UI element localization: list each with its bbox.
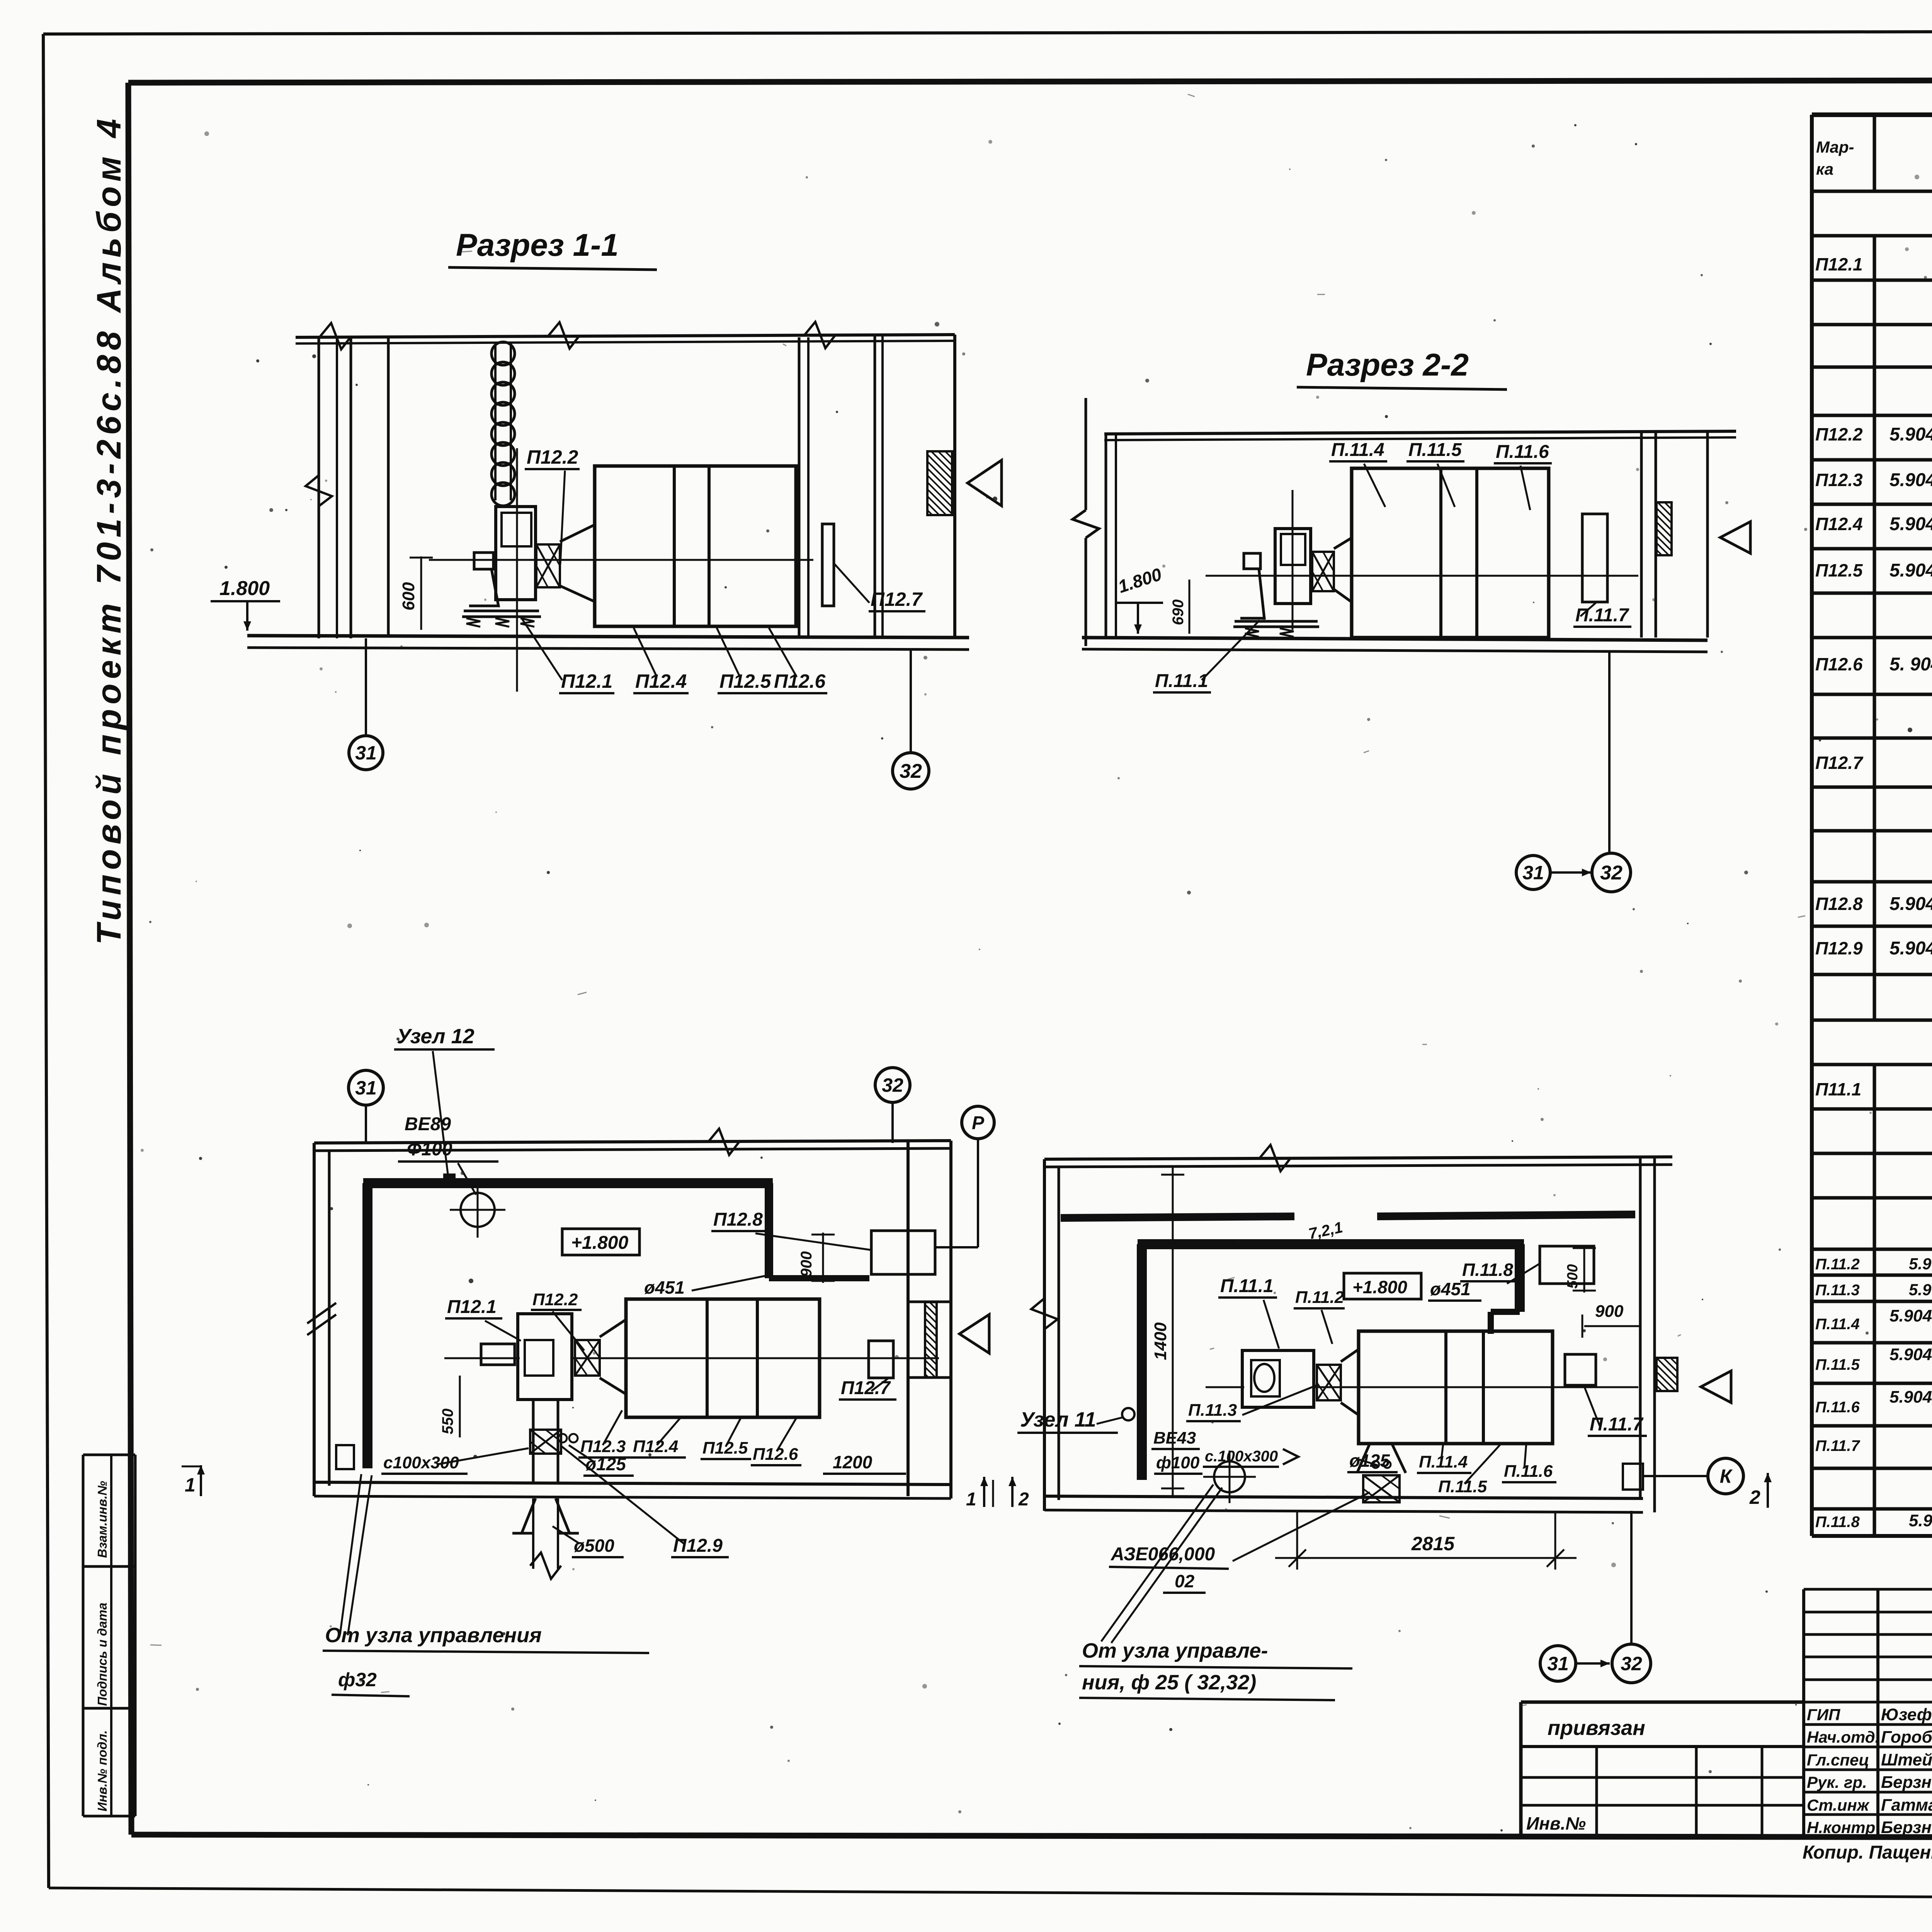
svg-text:5.904-12 в.1-15: 5.904-12 в.1-15 — [1889, 1345, 1932, 1364]
svg-text:31: 31 — [355, 742, 377, 764]
sec1-1 flexible duct with spiral — [492, 342, 515, 506]
plan12 valve П12.7 — [869, 1341, 893, 1378]
valve П11.7 — [1582, 514, 1607, 602]
label П12.1 — [445, 1297, 521, 1341]
svg-text:П12.1: П12.1 — [1815, 254, 1863, 274]
plan11 sections box — [1314, 1331, 1638, 1444]
svg-text:+1.800: +1.800 — [571, 1233, 628, 1253]
svg-text:5.904-12 в.1-15: 5.904-12 в.1-15 — [1889, 560, 1932, 581]
plan11 fan unit — [1206, 1350, 1314, 1407]
svg-text:690: 690 — [1170, 599, 1187, 625]
svg-text:ф32: ф32 — [338, 1669, 377, 1690]
label П12.9 — [561, 1446, 729, 1557]
section mark 1 left — [182, 1465, 205, 1496]
svg-text:5.904- 4: 5.904- 4 — [1889, 894, 1932, 914]
sec1-1 dim 600 — [399, 556, 433, 630]
svg-text:Н.контр: Н.контр — [1807, 1818, 1875, 1837]
svg-text:Узел 11: Узел 11 — [1020, 1408, 1096, 1431]
svg-text:П12.3: П12.3 — [580, 1437, 626, 1456]
svg-text:П12.6: П12.6 — [774, 670, 826, 692]
duct end flange — [336, 1445, 354, 1469]
svg-text:П11.1: П11.1 — [1815, 1079, 1861, 1099]
svg-text:Р: Р — [972, 1113, 985, 1133]
plan11 left wall — [1031, 1159, 1059, 1511]
svg-text:1400: 1400 — [1151, 1322, 1170, 1360]
flexible insert П11.2 — [1312, 552, 1334, 591]
svg-text:ø451: ø451 — [644, 1277, 685, 1298]
svg-text:П12.6: П12.6 — [1815, 654, 1863, 674]
svg-text:П12.9: П12.9 — [1815, 938, 1863, 958]
svg-text:П12.3: П12.3 — [1815, 470, 1863, 490]
svg-text:П.11.4: П.11.4 — [1419, 1452, 1468, 1471]
sections box П12.4 П12.5 П12.6 — [498, 466, 813, 626]
svg-text:Штейнберг: Штейнберг — [1881, 1750, 1932, 1769]
suction bell below fan — [1357, 1444, 1406, 1502]
svg-text:5.904-38: 5.904-38 — [1889, 424, 1932, 445]
privyazan table — [1521, 1702, 1804, 1835]
svg-text:ø125: ø125 — [1349, 1451, 1390, 1471]
section 2-2 title — [1297, 347, 1507, 389]
label d451 — [642, 1275, 769, 1299]
svg-text:П.11.1: П.11.1 — [1155, 671, 1208, 691]
svg-text:Узел 12: Узел 12 — [397, 1025, 474, 1048]
svg-text:П12.2: П12.2 — [1815, 424, 1863, 444]
svg-text:П12.4: П12.4 — [633, 1437, 678, 1456]
svg-text:П12.7: П12.7 — [871, 588, 923, 610]
label П12.7 — [839, 1378, 896, 1400]
fan unit П11.1 — [1233, 490, 1319, 637]
plan12 flow triangle — [959, 1315, 989, 1353]
svg-text:Нач.отд.: Нач.отд. — [1807, 1728, 1879, 1746]
plan11 bottom wall — [1044, 1496, 1643, 1512]
plan11 supply duct loop — [1138, 1244, 1524, 1480]
plan11 upper wall duct — [1061, 1214, 1635, 1218]
svg-text:П.11.5: П.11.5 — [1815, 1356, 1860, 1373]
svg-text:ка: ка — [1816, 160, 1833, 178]
svg-text:31: 31 — [355, 1077, 377, 1099]
note from control node plan11 — [1079, 1485, 1352, 1700]
svg-text:П.11.5: П.11.5 — [1408, 440, 1462, 460]
sec2-2 floor — [1082, 638, 1708, 652]
svg-text:П12.5: П12.5 — [1815, 560, 1863, 580]
svg-text:П12.5: П12.5 — [702, 1439, 748, 1458]
label П12.5 — [701, 1417, 751, 1459]
signature rows text — [1807, 1705, 1932, 1838]
plan11 top wall — [1044, 1145, 1672, 1171]
label Ф500 — [553, 1526, 624, 1557]
node K circle — [1623, 1458, 1743, 1494]
svg-text:П.11.8: П.11.8 — [1462, 1260, 1513, 1280]
svg-text:02: 02 — [1175, 1571, 1195, 1591]
svg-text:П.11.6: П.11.6 — [1496, 442, 1549, 462]
svg-text:Разрез 1-1: Разрез 1-1 — [456, 228, 619, 263]
svg-text:32: 32 — [882, 1075, 903, 1096]
labels П.11.4 П.11.5 П.11.6 — [1329, 440, 1552, 510]
dim 500 vertical — [1565, 1246, 1596, 1293]
plan11 flexible insert П11.3 — [1317, 1365, 1341, 1400]
svg-text:Рук. гр.: Рук. гр. — [1807, 1773, 1867, 1791]
svg-text:ф100: ф100 — [1156, 1453, 1200, 1472]
label П.11.1 — [1218, 1276, 1279, 1349]
plan12 flexible insert — [575, 1340, 600, 1376]
svg-text:П.11.7: П.11.7 — [1590, 1414, 1644, 1435]
svg-text:От узла управле-: От узла управле- — [1082, 1639, 1268, 1662]
label Ф125 plan11 — [1347, 1451, 1398, 1472]
svg-text:Горобец: Горобец — [1881, 1728, 1932, 1747]
supply duct loop thick — [363, 1183, 869, 1468]
plan12 cone — [600, 1320, 626, 1394]
svg-text:1: 1 — [966, 1489, 976, 1510]
label П.11.3 — [1186, 1385, 1317, 1421]
section 1-1 title — [448, 228, 657, 270]
svg-text:ГИП: ГИП — [1807, 1706, 1840, 1724]
left margin stamp cells — [83, 1455, 135, 1816]
label П.11.8 — [1460, 1260, 1540, 1284]
plan11 flow triangle — [1701, 1371, 1731, 1403]
dim 550 — [439, 1376, 460, 1437]
svg-text:2: 2 — [1018, 1489, 1029, 1510]
left margin vertical title: Типовой проект 701-3-26с.88 Альбом 4 — [90, 114, 128, 945]
svg-text:П12.8: П12.8 — [713, 1209, 763, 1230]
svg-text:5.904-12. в.1-1: 5.904-12. в.1-1 — [1889, 1306, 1932, 1325]
svg-text:П12.2: П12.2 — [527, 446, 578, 468]
fan unit П12.1 — [429, 448, 541, 692]
plan12 fan unit — [444, 1314, 572, 1400]
svg-text:Гл.спец: Гл.спец — [1807, 1751, 1869, 1769]
dim 2815 — [1275, 1512, 1577, 1570]
grid node 31 — [349, 638, 383, 770]
svg-text:5.904-38: 5.904-38 — [1909, 1281, 1932, 1299]
svg-text:Берзнер: Берзнер — [1881, 1773, 1932, 1792]
svg-text:2: 2 — [1749, 1486, 1760, 1508]
parts table header — [1816, 126, 1932, 185]
grid nodes 31 32 below — [1516, 652, 1631, 892]
plan12 right wall — [908, 1141, 951, 1498]
sec2-2 elevation 1.800 — [1116, 564, 1164, 634]
sec2-2 left wall — [1073, 398, 1116, 646]
svg-text:Юзефович: Юзефович — [1881, 1705, 1932, 1724]
svg-text:32: 32 — [1600, 862, 1622, 884]
cone to sections — [1334, 538, 1352, 602]
svg-text:Гатман: Гатман — [1881, 1796, 1932, 1815]
parts table content — [1815, 203, 1932, 1537]
svg-text:П.11.5: П.11.5 — [1438, 1477, 1487, 1496]
exhaust duct down with fire valve — [512, 1400, 579, 1579]
svg-text:Инв.№: Инв.№ — [1526, 1813, 1586, 1833]
valve П12.7 in wall — [822, 524, 834, 606]
elevation box +1.800 — [1344, 1273, 1421, 1299]
plan12 bottom wall — [314, 1482, 951, 1498]
label П12.1 — [522, 618, 614, 693]
label П.11.7 — [1573, 603, 1631, 627]
svg-text:П.11.2: П.11.2 — [1295, 1288, 1344, 1307]
diffuser cone — [560, 525, 595, 602]
svg-text:Копир. Пащенко: Копир. Пащенко — [1803, 1842, 1932, 1863]
grid node 32 — [893, 650, 929, 789]
svg-text:Берзнер: Берзнер — [1881, 1818, 1932, 1837]
svg-text:П.11.7: П.11.7 — [1815, 1437, 1861, 1454]
svg-text:32: 32 — [900, 760, 922, 782]
plan12 grid node 31 — [349, 1070, 383, 1143]
label П12.7 — [835, 564, 925, 611]
svg-text:5.904-12 в.1-1: 5.904-12 в.1-1 — [1889, 514, 1932, 534]
svg-text:ВЕ43: ВЕ43 — [1153, 1429, 1196, 1447]
dim 1400 vertical — [1151, 1167, 1184, 1496]
labels П.11.4 П.11.5 П.11.6 — [1417, 1444, 1556, 1498]
label П12.2 — [531, 1290, 584, 1350]
svg-text:5. 904-12 в. 1-28: 5. 904-12 в. 1-28 — [1889, 654, 1932, 675]
fire valve label АЗЕ066.000-02 — [1109, 1492, 1370, 1593]
plan11 valve П11.7 — [1565, 1354, 1596, 1385]
dim 1200 — [823, 1452, 906, 1474]
svg-text:Разрез 2-2: Разрез 2-2 — [1306, 347, 1469, 383]
sec2-2 ceiling — [1104, 431, 1736, 440]
svg-text:К: К — [1720, 1466, 1733, 1487]
svg-text:П.11.6: П.11.6 — [1504, 1462, 1553, 1481]
svg-text:с.100х300: с.100х300 — [1205, 1448, 1278, 1465]
label d451 plan11 — [1428, 1279, 1481, 1301]
svg-text:5.904-12 в.1-28: 5.904-12 в.1-28 — [1889, 1388, 1932, 1406]
svg-text:П12.4: П12.4 — [635, 670, 687, 692]
plan12 sections box — [572, 1299, 939, 1417]
label П12.2 — [525, 446, 580, 564]
svg-text:Инв.№ подл.: Инв.№ подл. — [95, 1730, 109, 1811]
labels П12.4 П12.5 П12.6 — [633, 628, 827, 693]
labels ВЕ43 Ф100 — [1151, 1429, 1202, 1474]
svg-text:От узла управления: От узла управления — [325, 1624, 542, 1647]
sec2-2 dim 690 — [1170, 580, 1189, 634]
plan11 target — [1203, 1451, 1256, 1503]
svg-text:П12.8: П12.8 — [1815, 894, 1863, 914]
label Ф125 — [569, 1445, 634, 1476]
svg-text:5.904-38: 5.904-38 — [1889, 470, 1932, 490]
svg-text:Подпись и дата: Подпись и дата — [95, 1603, 109, 1706]
node mark Узел 11 — [1017, 1408, 1134, 1433]
svg-text:П12.6: П12.6 — [753, 1445, 798, 1464]
svg-text:Взам.инв.№: Взам.инв.№ — [95, 1481, 109, 1558]
air terminal target — [450, 1182, 505, 1238]
sec2-2 right wall — [1641, 431, 1708, 638]
labels П12.3 П12.4 — [578, 1410, 686, 1458]
sec1-1 floor — [247, 636, 969, 650]
label с100х300 — [381, 1448, 529, 1474]
label с100х300 plan11 — [1203, 1448, 1298, 1467]
plan11 right wall — [1640, 1157, 1677, 1512]
svg-text:ø500: ø500 — [574, 1536, 614, 1556]
note from control node — [323, 1474, 649, 1696]
label П.11.7 — [1584, 1386, 1647, 1436]
svg-text:П12.9: П12.9 — [673, 1536, 723, 1556]
label П12.8 — [711, 1209, 871, 1250]
flow triangle — [1720, 522, 1750, 553]
dim 900 vertical — [798, 1233, 835, 1283]
sec1-1 right wall — [799, 335, 955, 638]
svg-text:31: 31 — [1522, 862, 1544, 884]
svg-text:2815: 2815 — [1411, 1533, 1455, 1554]
svg-text:31: 31 — [1547, 1653, 1569, 1675]
svg-text:привязан: привязан — [1548, 1716, 1645, 1740]
svg-text:600: 600 — [399, 582, 418, 611]
signatures table — [1804, 1589, 1932, 1837]
node 31 to 32 under plans — [1540, 1511, 1651, 1683]
svg-text:Типовой проект 701-3-26с.88: Типовой проект 701-3-26с.88 Альбом 4 — [90, 114, 128, 945]
parts table grid — [1812, 115, 1932, 1536]
svg-text:5.904-38: 5.904-38 — [1909, 1255, 1932, 1273]
svg-text:ВЕ89: ВЕ89 — [405, 1114, 451, 1134]
plan11 cone — [1341, 1349, 1359, 1415]
svg-text:П12.1: П12.1 — [447, 1297, 497, 1317]
flow triangle right — [968, 460, 1002, 506]
svg-text:П.11.8: П.11.8 — [1815, 1514, 1860, 1531]
svg-text:П.11.6: П.11.6 — [1815, 1399, 1860, 1416]
svg-text:1200: 1200 — [833, 1452, 872, 1472]
svg-text:П12.4: П12.4 — [1815, 514, 1863, 534]
люк П11.8 box — [1540, 1246, 1594, 1284]
svg-text:1.800: 1.800 — [219, 577, 270, 600]
svg-text:900: 900 — [1595, 1302, 1624, 1321]
sec1-1 left wall — [306, 337, 388, 638]
flexible insert П12.2 — [536, 544, 560, 587]
sec1-1 elevation 1.800 — [211, 577, 280, 631]
svg-text:5.904-4: 5.904-4 — [1909, 1511, 1932, 1530]
svg-text:П.11.7: П.11.7 — [1575, 605, 1629, 626]
plan П12 node label Узел 12 — [394, 1025, 495, 1184]
elevation box +1.800 — [562, 1229, 639, 1255]
svg-text:П12.5: П12.5 — [719, 670, 771, 692]
svg-text:Ст.инж: Ст.инж — [1807, 1796, 1870, 1814]
svg-text:ния, ф 25 ( 32,32): ния, ф 25 ( 32,32) — [1082, 1671, 1256, 1694]
svg-text:900: 900 — [798, 1251, 815, 1277]
svg-text:32: 32 — [1621, 1653, 1642, 1675]
plan12 grid node 32 — [875, 1068, 910, 1143]
svg-text:1: 1 — [185, 1474, 196, 1496]
sec1-1 ceiling — [296, 322, 955, 349]
svg-text:П12.2: П12.2 — [532, 1290, 578, 1309]
svg-text:П12.1: П12.1 — [561, 670, 612, 692]
label ВЕ89 Ф100 — [398, 1114, 498, 1195]
svg-text:П.11.4: П.11.4 — [1815, 1316, 1860, 1333]
svg-text:550: 550 — [439, 1408, 456, 1434]
svg-text:П.11.3: П.11.3 — [1188, 1401, 1237, 1420]
section marks 1 2 right — [966, 1477, 1029, 1510]
svg-text:П.11.2: П.11.2 — [1815, 1256, 1860, 1273]
plan12 left wall — [307, 1143, 336, 1496]
plan12 node P — [935, 1106, 994, 1247]
люк П12.8 box — [871, 1231, 935, 1274]
svg-text:500: 500 — [1565, 1264, 1581, 1289]
svg-text:5.904-20: 5.904-20 — [1889, 938, 1932, 959]
svg-text:П12.7: П12.7 — [1815, 753, 1864, 773]
svg-text:+1.800: +1.800 — [1352, 1277, 1407, 1297]
svg-text:Мар-: Мар- — [1816, 138, 1854, 156]
label П.11.2 — [1294, 1288, 1345, 1344]
dim 900 plan11 — [1582, 1302, 1640, 1338]
section mark 2 right — [1749, 1473, 1772, 1508]
svg-text:П.11.3: П.11.3 — [1815, 1282, 1860, 1299]
sections box П11.4 П11.5 П11.6 — [1206, 468, 1638, 638]
duct label 721 — [1307, 1219, 1344, 1243]
label П.11.1 — [1153, 620, 1260, 692]
svg-text:П.11.4: П.11.4 — [1331, 440, 1384, 460]
plan12 top wall — [314, 1129, 951, 1155]
label П12.6 — [751, 1417, 801, 1465]
